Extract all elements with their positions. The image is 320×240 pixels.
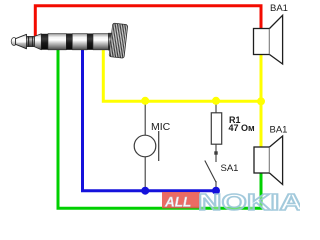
microphone MIC electrode bar: [158, 131, 160, 161]
speaker BA1 bottom: frame: [254, 136, 283, 185]
wire: R1 bottom lead to switch contact: [215, 144, 217, 162]
switch SA1 blade: [205, 161, 216, 183]
wire: R1 top lead: [215, 101, 217, 113]
node: blue junction at SA1 bottom: [212, 187, 220, 195]
plug neck groove: [27, 36, 35, 46]
svg-text:SA1: SA1: [221, 163, 239, 174]
plug insulator ring 2: [66, 34, 72, 50]
wire: SA1 bottom lead: [215, 181, 217, 191]
plug tip nub: [11, 38, 17, 46]
svg-text:BA1: BA1: [270, 3, 288, 14]
svg-text:MIC: MIC: [151, 121, 171, 133]
plug sleeve segment: [93, 34, 110, 50]
TRRS plug U1: group: [11, 23, 128, 58]
node: blue junction at MIC bottom: [141, 187, 149, 195]
plug contact segment A: [48, 34, 66, 50]
plug knurled cap: [109, 23, 128, 58]
switch SA1 fixed contact dot: [214, 151, 217, 154]
svg-text:BA1: BA1: [270, 125, 288, 136]
wire: MIC top lead: [144, 101, 146, 136]
node: yellow T junction at right: [257, 97, 265, 105]
plug contact segment B: [72, 34, 87, 50]
plug tip cone: [16, 34, 27, 49]
microphone MIC circle: [134, 135, 156, 157]
wire: MIC bottom lead: [144, 156, 146, 191]
svg-text:47 Ом: 47 Ом: [229, 123, 256, 133]
wire: yellow from plug sleeve down then right: [103, 44, 261, 101]
wire: blue from plug down then right to switch node: [83, 44, 217, 191]
watermark: allnokia red box: [162, 192, 200, 208]
node: yellow junction at MIC: [141, 97, 149, 105]
plug collar: [108, 33, 111, 50]
plug insulator ring 1: [41, 34, 48, 50]
node: yellow junction at R1: [212, 97, 220, 105]
svg-text:ALL: ALL: [164, 195, 191, 210]
svg-text:NOKIA: NOKIA: [198, 189, 300, 215]
plug insulator ring 3: [87, 34, 93, 50]
speaker BA1 top: frame: [254, 15, 283, 64]
plug flare ring: [35, 34, 42, 50]
wire: red from plug tip up and right to speaker BA1 top: [35, 6, 261, 38]
resistor R1 body: [211, 113, 221, 144]
wire: green from plug down, along bottom, up to lower speaker BA1: [58, 44, 261, 208]
wire: yellow vertical between the two speakers: [260, 53, 263, 148]
